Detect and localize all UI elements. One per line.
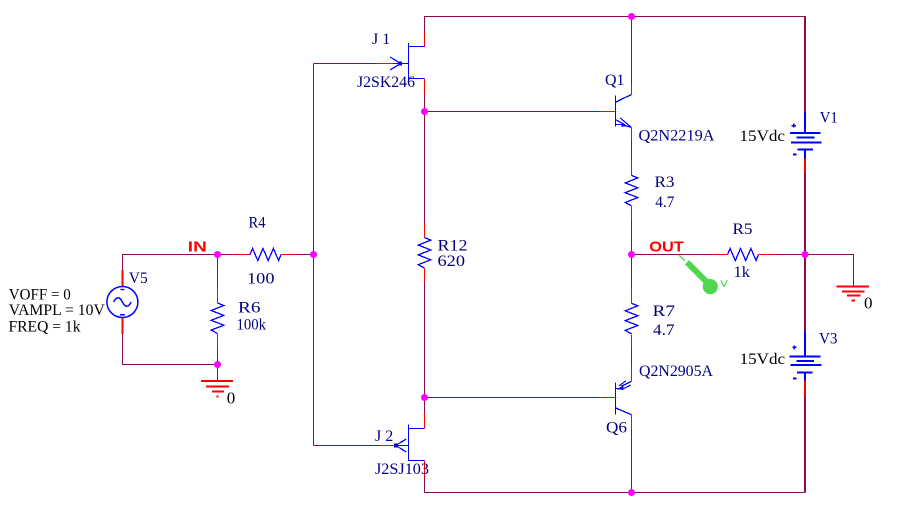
svg-text:VOFF = 0: VOFF = 0 — [9, 287, 71, 304]
svg-text:V5: V5 — [129, 270, 148, 287]
wire IN node down to R6 — [217, 255, 219, 288]
node OUT junction dot — [628, 251, 635, 258]
pin V5 minus red stub — [122, 318, 124, 335]
pin V5 plus red stub — [122, 270, 124, 287]
battery V1 15Vdc — [790, 112, 822, 159]
wire J1 source to node — [424, 95, 426, 112]
node junction dot J1 source / R12 / Q1 base — [421, 108, 428, 115]
wire bottom rail — [425, 492, 806, 494]
wire V3 to bottom rail — [804, 396, 806, 492]
svg-text:0: 0 — [864, 294, 873, 313]
pin V1 minus red stub — [804, 159, 806, 173]
svg-text:J2SK246: J2SK246 — [357, 74, 415, 91]
wire R7 to Q6 emitter — [631, 350, 633, 366]
pin J1 gate red stub — [378, 63, 394, 65]
wire V5 top to IN node — [123, 255, 218, 271]
resistor R12 620 body — [418, 238, 430, 269]
node IN junction dot — [214, 251, 221, 258]
transistor J2 (JFET J2SJ103) — [394, 424, 424, 461]
svg-text:100: 100 — [247, 270, 275, 287]
pin Q6 collector red stub — [631, 415, 633, 430]
resistor R5 1k left stub — [711, 254, 728, 256]
svg-text:4.7: 4.7 — [655, 194, 674, 211]
node junction dot gate bus / R4 — [310, 251, 317, 258]
svg-text:J2: J2 — [375, 428, 397, 445]
wire mid node to right ground — [805, 255, 854, 287]
svg-text:1k: 1k — [734, 264, 751, 281]
pin J2 gate red stub — [380, 445, 395, 447]
resistor R6 100k bottom stub — [217, 334, 219, 350]
resistor R6 100k top stub — [217, 288, 219, 304]
ground 0 right — [837, 287, 869, 301]
source V5 VSIN — [107, 287, 138, 318]
svg-text:J2SJ103: J2SJ103 — [375, 461, 429, 478]
ground 0 left — [201, 381, 233, 396]
svg-text:OUT: OUT — [649, 238, 684, 255]
svg-text:VAMPL = 10V: VAMPL = 10V — [9, 302, 105, 319]
resistor R3 4.7 top stub — [631, 160, 633, 176]
wire Q1 emitter to R3 — [631, 141, 633, 160]
pin Q1 collector red stub — [631, 85, 633, 95]
probe V letter — [721, 280, 727, 287]
wire right rail top segment — [804, 16, 806, 112]
svg-text:FREQ = 1k: FREQ = 1k — [9, 319, 81, 336]
node junction dot bottom rail — [628, 489, 635, 496]
pin J1 source red stub — [424, 79, 426, 95]
wire top rail — [425, 17, 806, 48]
battery V3 15Vdc — [790, 332, 822, 381]
resistor R12 620 bottom stub — [424, 269, 426, 283]
node junction dot V5 / R6 ground — [214, 361, 221, 368]
wire Q1 base horizontal — [425, 111, 600, 113]
wire R5 to right rail — [775, 254, 806, 256]
resistor R6 100k body — [211, 303, 223, 334]
svg-text:IN: IN — [188, 238, 207, 255]
resistor R7 4.7 top stub — [631, 288, 633, 303]
wire J2 drain to node — [424, 398, 426, 413]
wire mid node to V3 — [804, 255, 806, 332]
resistor R4 100 right stub — [281, 254, 297, 256]
wire IN node to R4 — [218, 254, 234, 256]
svg-text:15Vdc: 15Vdc — [740, 128, 786, 145]
wire Q6 base horizontal — [425, 397, 601, 399]
svg-text:R7: R7 — [653, 303, 676, 320]
svg-text:4.7: 4.7 — [653, 322, 675, 339]
pin Q6 emitter red stub — [631, 365, 633, 381]
wire R12 bottom to lower node — [424, 283, 426, 398]
wire V1 to mid node — [804, 173, 806, 255]
node junction dot right rail / R5 / ground — [802, 251, 809, 258]
wire Q1 collector drop — [631, 17, 633, 85]
wire R3 to OUT node — [631, 221, 633, 255]
pin Q1 emitter red stub — [631, 127, 633, 140]
pin V3 minus red stub — [804, 381, 806, 397]
probe voltage marker green — [679, 255, 718, 294]
svg-text:15Vdc: 15Vdc — [740, 351, 786, 368]
transistor J1 (JFET J2SK246) — [390, 43, 424, 80]
svg-text:0: 0 — [227, 388, 236, 407]
wire R4 to gate bus — [297, 254, 314, 256]
node junction dot top rail / Q1 collector — [628, 13, 635, 20]
svg-text:V1: V1 — [820, 109, 838, 126]
svg-text:R6: R6 — [238, 300, 261, 317]
wire Q6 collector to bottom rail — [631, 430, 633, 493]
svg-text:620: 620 — [438, 253, 466, 270]
pin J2 drain red stub — [424, 413, 426, 429]
svg-text:R5: R5 — [733, 221, 753, 238]
wire R6 bottom to ground node — [217, 350, 219, 365]
pin J1 drain red stub — [424, 33, 426, 47]
resistor R3 4.7 bottom stub — [631, 206, 633, 220]
svg-text:R12: R12 — [438, 238, 468, 255]
resistor R7 4.7 body — [625, 303, 637, 334]
transistor Q1 (Q2N2219A NPN) — [616, 95, 632, 128]
svg-text:V3: V3 — [819, 331, 838, 348]
pin J2 source red stub — [424, 461, 426, 477]
transistor Q6 (Q2N2905A PNP) — [616, 381, 632, 415]
wire J1 drain to top rail — [424, 17, 426, 33]
svg-text:Q1: Q1 — [605, 72, 625, 89]
wire left gate bus vertical — [313, 64, 315, 446]
svg-text:J1: J1 — [372, 31, 394, 48]
resistor R4 100 left stub — [234, 254, 251, 256]
resistor R4 100 body — [250, 249, 281, 261]
pin Q1 base red stub — [600, 111, 616, 113]
wire J2 gate horizontal — [314, 445, 380, 447]
wire R12 top from node — [424, 112, 426, 224]
wire OUT node down to R7 — [631, 255, 633, 289]
resistor R5 1k body — [728, 249, 759, 261]
wire ground stem left — [217, 365, 219, 382]
svg-text:Q2N2905A: Q2N2905A — [639, 363, 713, 380]
node junction dot R12 / J2 drain / Q6 base — [421, 394, 428, 401]
resistor R7 4.7 bottom stub — [631, 334, 633, 349]
pin Q6 base red stub — [601, 397, 616, 399]
wire J2 source to bottom rail — [424, 477, 426, 493]
wire V5 bottom to ground node — [123, 334, 218, 365]
wire OUT node to R5 — [632, 254, 712, 256]
svg-text:Q6: Q6 — [606, 419, 627, 436]
svg-text:R4: R4 — [249, 214, 266, 231]
resistor R5 1k right stub — [759, 254, 775, 256]
svg-text:100k: 100k — [237, 316, 267, 333]
svg-text:Q2N2219A: Q2N2219A — [639, 128, 715, 145]
wire J1 gate horizontal — [314, 63, 378, 65]
resistor R3 4.7 body — [625, 175, 637, 206]
svg-text:R3: R3 — [655, 174, 675, 191]
resistor R12 620 top stub — [424, 224, 426, 238]
